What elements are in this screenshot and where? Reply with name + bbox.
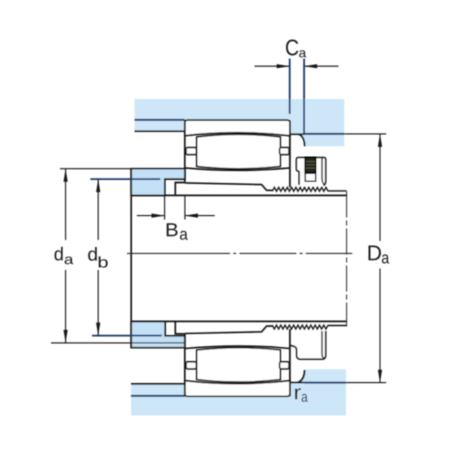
label C_a: [286, 40, 306, 58]
adapter sleeve taper + thread start (bottom): [185, 326, 272, 333]
shaft top surface: [131, 194, 346, 196]
washer slot in nut (top): [305, 157, 316, 181]
label r_a: [295, 388, 308, 402]
housing top fillet r_a: [299, 134, 305, 146]
dimension d_a witness bottom: [51, 342, 185, 344]
cage left (bottom): [186, 362, 196, 369]
roller (bottom): [197, 348, 281, 383]
dimension B_a witness left: [164, 196, 166, 220]
dimension d_b witness bottom (navy): [92, 335, 162, 337]
bearing right face (top): [289, 120, 291, 187]
dimension C_a extension line left: [289, 59, 291, 114]
dimension D_a line + arrows: [378, 134, 382, 383]
label d_a: [54, 247, 73, 264]
bearing outer ring (bottom): [185, 381, 290, 397]
bearing outer ring (top): [185, 120, 290, 136]
bearing left face (top): [184, 120, 186, 183]
bearing left face (bottom): [184, 334, 186, 397]
lock nut chamfer line (bottom): [322, 331, 325, 358]
thread zigzag (bottom): [272, 325, 328, 329]
label d_b: [88, 247, 107, 268]
housing bottom bore line (navy): [131, 395, 185, 397]
housing top shoulder abutment line: [291, 133, 305, 135]
sleeve thread od right of nut (bottom): [328, 325, 347, 327]
lock nut (bottom): [291, 331, 326, 359]
inner ring raceway (top): [185, 168, 290, 170]
adapter sleeve taper + thread start (top): [185, 183, 272, 190]
adapter sleeve left end (top): [175, 183, 185, 196]
cage left (top): [186, 148, 196, 155]
dimension d_b witness top (navy): [90, 178, 160, 180]
shaft bottom surface: [131, 320, 346, 322]
dimension B_a witness right: [184, 196, 186, 220]
shaft left face: [130, 169, 132, 348]
dimension d_b line + arrows: [96, 179, 100, 336]
dimension d_a line + arrows: [64, 169, 68, 343]
cage right (top): [280, 148, 289, 155]
cage right (bottom): [280, 362, 289, 369]
shaft abutment collar bottom (cyan): [131, 321, 185, 347]
housing top shoulder bottom edge line: [135, 130, 185, 132]
housing top bore line (navy): [135, 119, 185, 121]
label D_a: [369, 245, 390, 263]
housing bottom shoulder top edge line: [131, 383, 185, 385]
centerline: [127, 252, 352, 254]
housing top (cyan): [135, 99, 345, 146]
dimension C_a arrows: [255, 64, 339, 68]
adapter sleeve left end (bottom): [175, 322, 185, 334]
bearing right face (bottom): [289, 329, 291, 396]
roller (top): [197, 134, 281, 169]
dimension C_a extension line right: [303, 59, 305, 135]
inner ring raceway (bottom): [185, 346, 290, 348]
lock nut (top): [296, 158, 325, 186]
shaft abutment collar top (cyan): [131, 169, 185, 196]
housing bottom fillet r_a: [298, 370, 305, 383]
label B_a: [167, 223, 188, 239]
housing bottom shoulder abutment line: [290, 382, 304, 384]
dimension d_a witness top: [60, 168, 131, 170]
sleeve thread od right of nut (top): [328, 190, 347, 192]
dimension B_a arrows: [137, 214, 215, 218]
shaft right break line: [346, 192, 348, 327]
housing bottom (cyan): [131, 369, 346, 415]
lock nut chamfer line (top): [322, 158, 325, 185]
washer tab dark (top): [305, 157, 316, 173]
thread zigzag (top): [272, 187, 328, 191]
